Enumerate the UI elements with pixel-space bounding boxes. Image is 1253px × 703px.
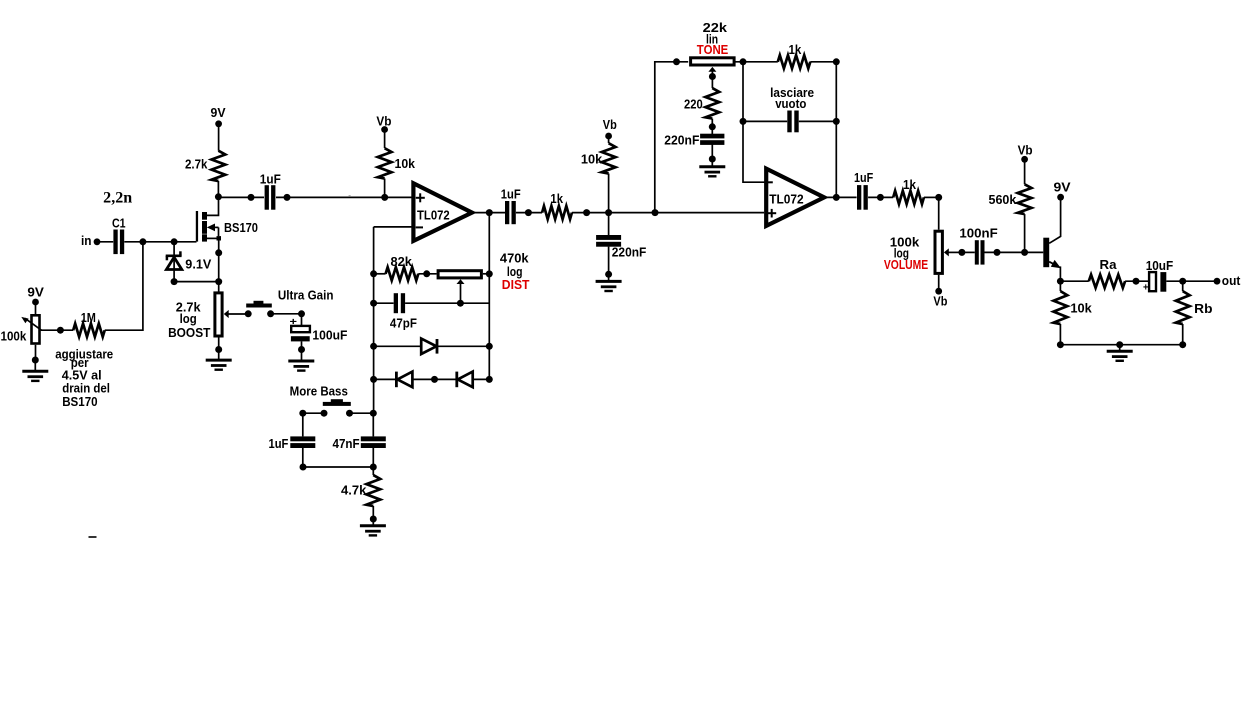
node TONE wiper xyxy=(709,73,716,80)
node after 1uF (mid) xyxy=(525,209,532,216)
node after volume wiper xyxy=(958,249,965,256)
wire 220nF to ground node xyxy=(608,247,610,275)
resistor Rb xyxy=(1176,291,1190,324)
svg-text:1uF: 1uF xyxy=(260,172,281,186)
svg-text:47pF: 47pF xyxy=(390,317,417,331)
capacitor 1uF (output) xyxy=(857,185,861,210)
node 220/220nF xyxy=(709,123,716,130)
wire 1uF to 1k xyxy=(516,212,542,214)
node 1k TONE right xyxy=(833,58,840,65)
wire MB bottom row xyxy=(303,466,373,468)
node TONE right pin xyxy=(740,58,747,65)
svg-text:BOOST: BOOST xyxy=(168,326,211,340)
svg-text:220nF: 220nF xyxy=(612,246,647,260)
capacitor 1uF (More Bass) xyxy=(290,436,315,441)
wire C1 to gate of Q1 xyxy=(124,241,196,243)
potentiometer 2.7k log BOOST xyxy=(215,293,222,336)
svg-text:Vb: Vb xyxy=(933,294,947,308)
node drain xyxy=(215,193,222,200)
node above ground (4.7k) xyxy=(370,516,377,523)
capacitor C1 2,2n xyxy=(113,230,117,255)
wire vuoto row left xyxy=(743,120,787,122)
svg-text:TL072: TL072 xyxy=(417,208,450,222)
svg-text:470k: 470k xyxy=(500,252,529,266)
wire emitter row to Ra xyxy=(1060,280,1088,282)
wire 9V to trimmer top xyxy=(35,302,37,314)
svg-text:2,2n: 2,2n xyxy=(103,190,132,207)
wire 10uF to out xyxy=(1166,280,1217,282)
node op-amp1 output xyxy=(486,209,493,216)
node after Ra xyxy=(1133,278,1140,285)
node TONE rail junction xyxy=(652,209,659,216)
ground (220nF mid) xyxy=(596,280,622,283)
capacitor 10uF polarized xyxy=(1149,272,1156,291)
svg-text:drain del: drain del xyxy=(62,382,110,396)
svg-text:100nF: 100nF xyxy=(959,227,998,241)
resistor 2.7k (drain) xyxy=(212,151,226,181)
node after 100nF xyxy=(994,249,1001,256)
svg-text:220nF: 220nF xyxy=(664,133,699,147)
svg-text:9V: 9V xyxy=(27,285,44,299)
resistor 1M xyxy=(73,324,105,337)
resistor 82k xyxy=(386,267,419,280)
node volume bottom Vb xyxy=(935,288,942,295)
resistor 560k xyxy=(1018,184,1032,214)
node mid filter junction xyxy=(605,209,612,216)
node op-amp2 output xyxy=(833,194,840,201)
svg-text:100uF: 100uF xyxy=(312,328,347,342)
svg-text:47nF: 47nF xyxy=(333,437,360,451)
capacitor lasciare vuoto xyxy=(787,111,791,133)
node wiper/47pF junction xyxy=(457,300,464,307)
op-amp U1 TL072 xyxy=(413,183,472,241)
svg-text:2.7k: 2.7k xyxy=(185,158,208,172)
wire emitter to 10k xyxy=(1059,281,1061,291)
node after 10uF xyxy=(1179,278,1186,285)
resistor 220 xyxy=(705,88,719,119)
capacitor 1uF (stage1) xyxy=(265,185,269,210)
svg-text:BS170: BS170 xyxy=(62,395,97,409)
svg-text:100k: 100k xyxy=(1,330,27,344)
svg-text:1M: 1M xyxy=(81,311,96,325)
node 100uF bottom xyxy=(298,346,305,353)
potentiometer 100k log VOLUME xyxy=(935,231,942,273)
svg-text:9.1V: 9.1V xyxy=(185,257,212,271)
wire to ground (BOOST) xyxy=(218,350,220,360)
wire trimmer bottom xyxy=(35,345,37,360)
capacitor 100uF polarized xyxy=(291,326,310,332)
node MB cap1 top xyxy=(299,410,306,417)
svg-text:Ultra Gain: Ultra Gain xyxy=(278,289,334,303)
svg-text:C1: C1 xyxy=(112,217,126,231)
wire trimmer wiper to 1M xyxy=(41,329,73,331)
svg-text:1uF: 1uF xyxy=(269,437,289,451)
node 560k junction xyxy=(1021,249,1028,256)
resistor 10k (Vb op-amp1) xyxy=(378,148,392,178)
diode zener 9.1V xyxy=(173,242,175,282)
transistor Q1 BS170 xyxy=(196,211,198,242)
svg-text:560k: 560k xyxy=(989,193,1017,207)
svg-text:10uF: 10uF xyxy=(1146,259,1174,273)
node feedback row4 left xyxy=(370,376,377,383)
node feedback row3 right xyxy=(486,343,493,350)
potentiometer 22k lin TONE xyxy=(691,58,735,65)
wire Ra to 10uF xyxy=(1125,280,1149,282)
wiper 470k arrow xyxy=(460,283,462,303)
resistor 10k (mid) xyxy=(602,143,616,173)
wire to ground (220nF mid) xyxy=(608,274,610,281)
wire 47nF bottom xyxy=(372,448,374,467)
stray dash mark xyxy=(89,536,97,538)
wire 1k TONE right xyxy=(810,61,836,63)
switch More Bass xyxy=(321,410,328,417)
node above ground (TONE) xyxy=(709,156,716,163)
wire 100nF to base xyxy=(984,251,1043,253)
diode D3 (left) xyxy=(455,372,458,388)
node trimmer bottom xyxy=(32,357,39,364)
svg-text:+: + xyxy=(290,316,298,328)
capacitor 47pF xyxy=(394,293,398,313)
capacitor 47nF xyxy=(361,436,386,441)
wire Vb to 560k xyxy=(1024,159,1026,184)
node after 1uF out xyxy=(877,194,884,201)
wire op-amp1 1uF out xyxy=(505,201,509,224)
wire feedback right rail xyxy=(488,213,490,380)
svg-text:VOLUME: VOLUME xyxy=(884,258,928,272)
wiper BOOST arrow xyxy=(228,313,248,315)
wire 100uF to node xyxy=(301,341,303,349)
node wiper/1M junction xyxy=(57,327,64,334)
node after 1k (mid) xyxy=(583,209,590,216)
svg-text:BS170: BS170 xyxy=(224,221,258,235)
node volume top xyxy=(935,194,942,201)
resistor 1k (output) xyxy=(893,191,924,204)
svg-text:out: out xyxy=(1222,274,1241,288)
node bottom mid xyxy=(1116,341,1123,348)
wire TONE mid rail to - input xyxy=(743,62,765,182)
wire row2 left xyxy=(374,302,394,304)
node vuoto right xyxy=(833,118,840,125)
wire junction to 220nF xyxy=(608,213,610,236)
ground (100uF) xyxy=(288,360,314,363)
svg-text:4.7k: 4.7k xyxy=(341,484,366,498)
wire wiper to 220 xyxy=(711,77,713,89)
node TONE left pin xyxy=(673,58,680,65)
wiper VOLUME arrow xyxy=(948,251,962,253)
resistor 1k (mid) xyxy=(542,206,572,219)
capacitor 100nF xyxy=(975,240,979,264)
svg-text:+: + xyxy=(1143,283,1149,294)
capacitor 220nF (mid) xyxy=(596,235,621,240)
node feedback row2 left xyxy=(370,300,377,307)
wire Vb to 10k mid xyxy=(608,136,610,143)
svg-text:in: in xyxy=(81,234,92,248)
wire mid junction to op-amp2 xyxy=(609,212,765,214)
svg-text:4.5V al: 4.5V al xyxy=(62,369,102,383)
potentiometer 470k log DIST xyxy=(438,271,481,278)
node emitter xyxy=(1057,278,1064,285)
wire - input to feedback rail xyxy=(374,226,413,228)
resistor 1k (TONE) xyxy=(778,55,811,68)
ground (TONE 220nF) xyxy=(699,165,725,168)
node after 1uF xyxy=(284,194,291,201)
wire volume bottom xyxy=(938,275,940,291)
node after 82k xyxy=(423,270,430,277)
svg-text:10k: 10k xyxy=(395,157,416,171)
svg-text:vuoto: vuoto xyxy=(775,97,807,111)
node vuoto left xyxy=(740,118,747,125)
node feedback row1 left xyxy=(370,270,377,277)
wire D2 to D3 xyxy=(412,378,455,380)
wire switch to 100uF xyxy=(271,313,302,315)
wire to ground (4.7k) xyxy=(372,519,374,526)
wire MB left segment xyxy=(303,412,324,414)
wire input to C1 xyxy=(97,241,113,243)
wire Vb to 10k xyxy=(384,130,386,149)
svg-text:Ra: Ra xyxy=(1100,258,1118,272)
svg-text:More Bass: More Bass xyxy=(290,385,348,399)
node MB bottom left xyxy=(300,464,307,471)
wire 10k to + input xyxy=(384,179,386,198)
wiper TONE arrow xyxy=(711,71,713,77)
svg-text:82k: 82k xyxy=(391,255,412,269)
wire to ground (100uF) xyxy=(301,350,303,361)
node source xyxy=(215,249,222,256)
svg-text:log: log xyxy=(507,265,523,279)
op-amp U2 TL072 xyxy=(766,169,824,226)
wire 2.7k to drain node xyxy=(217,181,219,197)
wire to 4.7k xyxy=(372,467,374,475)
wire op-amp1 output xyxy=(474,212,505,214)
wire 1k to junction xyxy=(572,212,609,214)
wire source down xyxy=(218,240,220,292)
wire to 47nF xyxy=(372,413,374,436)
svg-text:Rb: Rb xyxy=(1194,302,1213,316)
wire to 1uF MB xyxy=(302,413,304,436)
node feedback row4 right xyxy=(486,376,493,383)
wire 9V to collector xyxy=(1049,197,1060,243)
wire TONE right rail xyxy=(835,62,837,198)
diode D2 (left) xyxy=(395,372,398,388)
node feedback row3 left xyxy=(370,343,377,350)
transistor Q2 (NPN buffer) xyxy=(1043,238,1049,268)
node bottom left xyxy=(1057,341,1064,348)
wire node to 220nF xyxy=(711,127,713,134)
svg-text:10k: 10k xyxy=(1070,301,1091,315)
ground (4.7k) xyxy=(360,524,386,527)
wire 1uF MB bottom xyxy=(302,448,304,467)
wire Rb top xyxy=(1182,281,1184,291)
wire 220nF TONE to ground node xyxy=(711,145,713,160)
ground (BOOST) xyxy=(206,359,232,362)
wire row3 right xyxy=(438,345,490,347)
node MB bottom right xyxy=(370,464,377,471)
wire zener to source xyxy=(174,281,219,283)
svg-text:1uF: 1uF xyxy=(854,171,874,185)
wire bottom row xyxy=(1060,344,1182,346)
wire op-amp2 output xyxy=(824,196,856,198)
wire MB right segment xyxy=(350,412,374,414)
node junction gate/bias xyxy=(139,238,146,245)
wire TONE left rail xyxy=(655,62,688,213)
node junction gate/zener xyxy=(171,238,178,245)
wire BOOST bottom xyxy=(218,337,220,349)
wire to ground (TONE) xyxy=(711,159,713,167)
wire 82k to 470k pot xyxy=(418,273,436,275)
wire to ground (output) xyxy=(1119,345,1121,351)
svg-text:log: log xyxy=(180,312,197,326)
wire 220 to node xyxy=(711,119,713,127)
wire 1uF to op-amp + input xyxy=(276,196,413,198)
node before 1uF xyxy=(248,194,255,201)
svg-text:Vb: Vb xyxy=(603,118,617,132)
wire 1uF to 1k out xyxy=(868,196,893,198)
wire 560k to base xyxy=(1024,214,1026,252)
node feedback row1 right xyxy=(486,270,493,277)
node BOOST bottom xyxy=(215,346,222,353)
wire 1k to volume xyxy=(924,196,939,198)
wire 470k to right rail xyxy=(483,273,489,275)
svg-text:9V: 9V xyxy=(1054,181,1072,195)
svg-text:1k: 1k xyxy=(789,43,802,57)
node Vb divider junction xyxy=(381,194,388,201)
node 100uF top xyxy=(298,310,305,317)
wire feedback left rail xyxy=(373,227,375,413)
wire drain to 1uF xyxy=(218,196,264,198)
node source/zener xyxy=(215,278,222,285)
wire vuoto row right xyxy=(799,120,837,122)
svg-text:Vb: Vb xyxy=(1018,144,1033,158)
ground (output) xyxy=(1107,350,1133,353)
trimmer 100k (bias) xyxy=(32,315,40,343)
ground (bias pot) xyxy=(22,370,48,373)
wire to ground (bias pot) xyxy=(34,360,36,371)
wire down to volume pot xyxy=(938,197,940,229)
capacitor 220nF (TONE) xyxy=(700,134,724,139)
node out terminal xyxy=(1214,278,1221,285)
stray tick mark on wire xyxy=(349,195,351,197)
svg-text:10k: 10k xyxy=(581,153,602,167)
resistor Ra xyxy=(1089,275,1125,288)
node bottom right xyxy=(1179,341,1186,348)
wire 10k mid down xyxy=(608,174,610,213)
wire down to 100uF xyxy=(301,314,303,326)
svg-text:TONE: TONE xyxy=(697,43,729,57)
svg-text:TL072: TL072 xyxy=(769,192,804,206)
svg-text:DIST: DIST xyxy=(502,278,530,292)
wire 9V to 2.7k xyxy=(218,124,220,151)
node between D2 D3 xyxy=(431,376,438,383)
switch Ultra Gain xyxy=(245,310,252,317)
node above ground (220nF) xyxy=(605,271,612,278)
wire row4 right xyxy=(473,378,490,380)
wire row2 right xyxy=(405,302,489,304)
node More Bass rail xyxy=(370,410,377,417)
wire Rb to bottom xyxy=(1182,324,1184,345)
svg-text:1k: 1k xyxy=(903,178,916,192)
wire 10k to bottom xyxy=(1059,324,1061,345)
wire 4.7k to ground node xyxy=(372,506,374,519)
svg-text:9V: 9V xyxy=(211,106,227,120)
wire row1 left xyxy=(374,273,386,275)
node zener bottom xyxy=(171,278,178,285)
svg-text:1k: 1k xyxy=(550,192,563,206)
wire row3 left xyxy=(374,345,421,347)
resistor 4.7k xyxy=(366,475,380,506)
wire row4 left xyxy=(374,378,397,380)
node in (input terminal) xyxy=(94,238,101,245)
svg-text:1uF: 1uF xyxy=(501,188,521,202)
svg-text:220: 220 xyxy=(684,98,703,112)
wire 1M to gate line xyxy=(105,242,143,330)
resistor 10k (emitter) xyxy=(1054,291,1068,324)
wire TONE right to 1k xyxy=(735,61,778,63)
wire wiper to 100nF xyxy=(962,251,975,253)
diode D1 (right) xyxy=(421,339,436,354)
